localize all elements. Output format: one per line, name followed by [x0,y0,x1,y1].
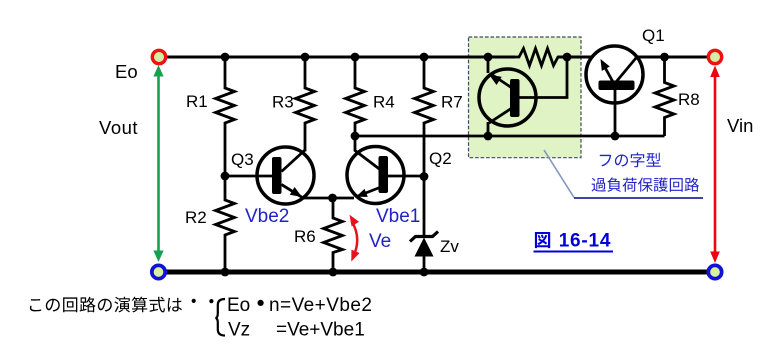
callout leader line [544,150,574,198]
svg-text:Q2: Q2 [429,149,452,168]
label overload protection circuit (underlined) [574,178,703,199]
label figure number 16-14 (underlined) [534,231,614,252]
svg-text:Eo: Eo [115,61,138,82]
label Vbe2 [245,206,289,227]
svg-text:R8: R8 [678,90,700,109]
node top R3 [301,53,310,62]
resistor R3 [296,57,315,152]
node top R4 [351,53,360,62]
label Q3 [231,150,254,169]
label Vin [727,115,753,136]
label Zv [440,237,459,256]
transistor Q3 [257,147,314,204]
node Q4 collector [484,132,493,141]
label R8 [678,90,700,109]
resistor R8 [655,57,674,136]
svg-text:Eo: Eo [227,295,250,316]
node bottom R6 [329,268,338,277]
label R7 [441,93,463,112]
wire Q4 base L [515,57,567,98]
formula intro text [30,297,214,313]
wire base node horizontal Q3 [225,175,276,178]
svg-text:R2: R2 [185,208,207,227]
label Q1 [642,26,665,45]
overload-protection highlight box [469,37,582,158]
resistor R7 [415,57,434,176]
transistor Q1 [586,46,643,103]
svg-text:Vbe1: Vbe1 [376,206,420,227]
svg-text:Ve: Ve [369,231,391,252]
label Q2 [429,149,452,168]
svg-text:R3: R3 [272,93,294,112]
svg-text:Zv: Zv [440,237,459,256]
wire top rail left segment [165,56,515,59]
node Q3 base [221,172,230,181]
label Ve [369,231,391,252]
formula line 1 [227,295,372,316]
svg-text:Q3: Q3 [231,150,254,169]
wire Q1 base vertical [614,86,617,136]
svg-text:R7: R7 [441,93,463,112]
wire base node horizontal Q2 [384,175,424,178]
node top R7 [420,53,429,62]
label Eo [115,61,138,82]
wire top rail right segment [636,56,708,59]
node bottom Zv [420,268,429,277]
label R4 [373,93,395,112]
node bottom R2 [221,268,230,277]
terminal bottom left [152,265,165,278]
svg-text:n=Ve+Vbe2: n=Ve+Vbe2 [269,295,372,316]
wire top rail mid segment [558,56,601,59]
node top R8 [660,53,669,62]
label R3 [272,93,294,112]
transistor Q4 (protection) [479,69,536,126]
terminal bottom right [708,265,721,278]
svg-text:Vz: Vz [228,320,250,341]
node top Q4 base [563,53,572,62]
formula line 2b [276,320,365,341]
svg-text:R4: R4 [373,93,395,112]
svg-text:=Ve+Vbe1: =Ve+Vbe1 [276,320,365,341]
wire Q4 collector stub [487,122,490,136]
resistor R2 [216,176,235,272]
terminal Vin top right [708,50,721,63]
wire Q4 emitter stub [487,57,490,73]
resistor R6 [324,198,343,272]
label R2 [185,208,207,227]
node Q2 base [420,172,429,181]
resistor R1 [216,57,235,176]
node Q1 base [611,132,620,141]
svg-text:R1: R1 [186,92,208,111]
wire emitter node horizontal [303,197,354,200]
node emitter junction [328,194,337,203]
Ve red curved arrow [350,215,360,262]
node top Q4 emitter [484,53,493,62]
formula brace [215,299,225,336]
wire bottom rail [165,270,709,275]
svg-text:Vbe2: Vbe2 [245,206,289,227]
svg-text:Q1: Q1 [642,26,665,45]
Vout green measurement arrow [153,65,163,262]
Vin red measurement arrow [710,66,720,264]
svg-text:16-14: 16-14 [559,231,612,252]
label fu-no-ji-gata [600,153,661,168]
svg-text:Vin: Vin [727,115,753,136]
label R6 [294,227,316,246]
node top R1 [221,53,230,62]
label Vbe1 [376,206,420,227]
transistor Q2 [347,136,404,204]
resistor R4 [346,57,365,136]
current-sense resistor (in protection box) [488,49,567,66]
wire mid horizontal bus y=136 [355,135,665,138]
wire zener column lower [423,255,426,272]
zener diode Zv [410,232,438,257]
svg-text:Vout: Vout [99,117,138,138]
label Vout [99,117,138,138]
svg-text:R6: R6 [294,227,316,246]
wire zener column upper [423,176,426,237]
node R4 bottom [351,132,360,141]
terminal Eo top left [152,50,165,63]
label R1 [186,92,208,111]
formula line 2a [228,320,250,341]
